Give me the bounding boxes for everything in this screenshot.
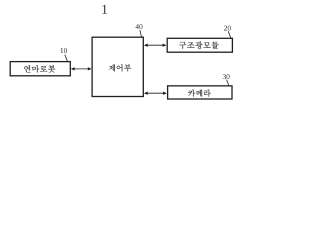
- leader line for 20: [228, 31, 231, 38]
- block box: camera (카메라): [168, 86, 232, 99]
- double-headed arrow: control unit to structured light module: [144, 44, 167, 47]
- figure number 1: [102, 5, 107, 14]
- text label 제어부: [109, 64, 131, 71]
- text label 구조광모듈: [179, 41, 219, 48]
- double-headed arrow: control unit to camera: [144, 92, 167, 95]
- ref numeral 10: [61, 48, 67, 53]
- leader line for 10: [65, 55, 68, 62]
- block box: control unit (제어부): [92, 37, 143, 96]
- double-headed arrow: robot to control unit: [71, 67, 92, 70]
- text label 연마로봇: [24, 65, 55, 73]
- ref numeral 40: [135, 24, 142, 29]
- leader line for 40: [140, 30, 142, 37]
- block box: polishing robot (연마로봇): [10, 62, 70, 76]
- text label 카메라: [188, 90, 211, 97]
- block box: structured light module (구조광모듈): [167, 38, 232, 52]
- leader line for 30: [227, 80, 229, 86]
- ref numeral 30: [223, 74, 230, 79]
- ref numeral 20: [224, 26, 231, 31]
